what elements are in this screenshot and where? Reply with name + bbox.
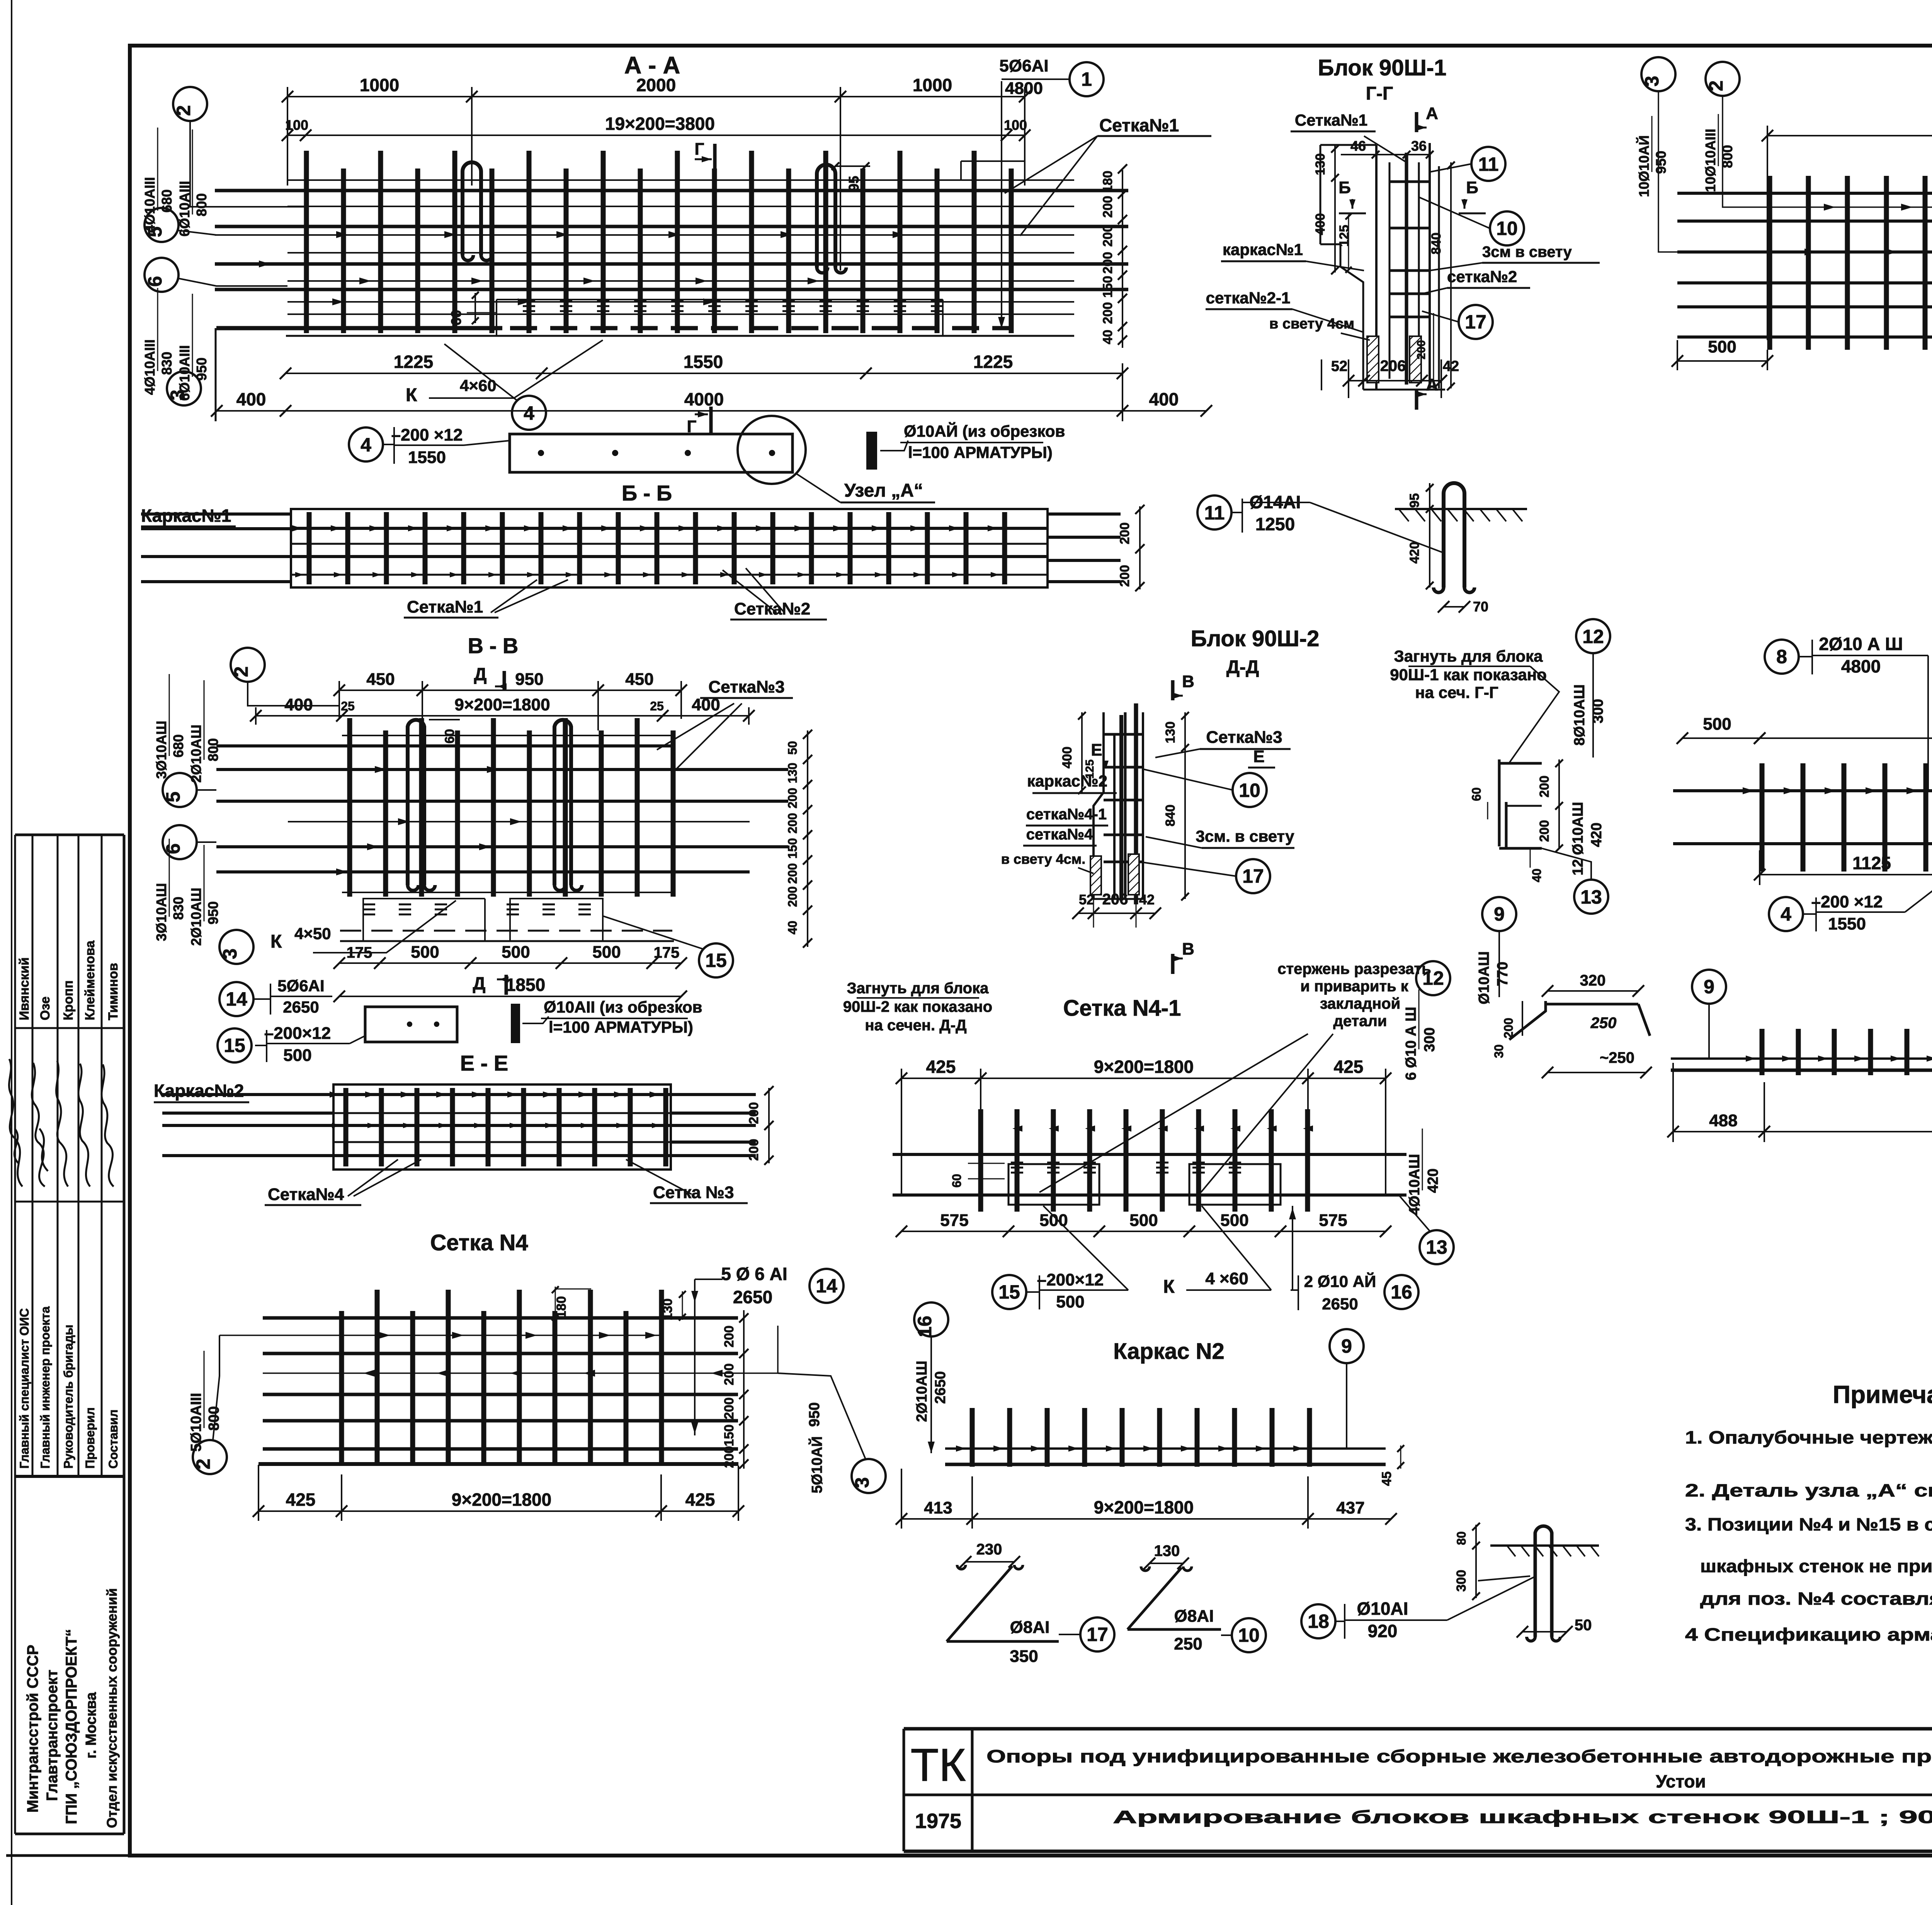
plate position circle 4 bbox=[349, 427, 383, 461]
svg-text:В: В bbox=[1182, 672, 1194, 691]
svg-text:95: 95 bbox=[1407, 493, 1422, 508]
svg-text:2Ø10АШ: 2Ø10АШ bbox=[914, 1361, 930, 1422]
svg-text:Блок 90Ш-1: Блок 90Ш-1 bbox=[1318, 55, 1447, 80]
detail 9 dims 320 30 200 250 ~250 bbox=[1542, 972, 1644, 997]
setka N4 circle 2 bbox=[192, 1440, 227, 1474]
V-V mesh arrows bbox=[336, 766, 522, 875]
setka N4-1 note circle 12 bbox=[1416, 961, 1450, 995]
detail 11 ground hatch line bbox=[1395, 508, 1527, 510]
A-A position circle 4 on plate leader bbox=[512, 396, 546, 430]
svg-text:42: 42 bbox=[1139, 892, 1155, 907]
svg-text:Сетка №3: Сетка №3 bbox=[653, 1183, 734, 1202]
svg-text:4800: 4800 bbox=[1841, 656, 1881, 676]
svg-text:Ø8АI: Ø8АI bbox=[1010, 1618, 1050, 1637]
G-G section mark A top bbox=[1417, 104, 1438, 132]
svg-text:Главный специалист ОИС: Главный специалист ОИС bbox=[17, 1308, 31, 1469]
svg-text:12: 12 bbox=[1582, 626, 1604, 647]
svg-text:и приварить к: и приварить к bbox=[1300, 978, 1409, 995]
svg-text:4 Спецификацию арматуры см: 4 Спецификацию арматуры см. лист 45 bbox=[1685, 1624, 1932, 1645]
svg-text:1850: 1850 bbox=[506, 975, 545, 995]
G-G horizontal struts bbox=[1389, 182, 1430, 317]
svg-text:5Ø6АI: 5Ø6АI bbox=[999, 56, 1048, 75]
svg-text:Проверил: Проверил bbox=[83, 1407, 97, 1469]
svg-text:125: 125 bbox=[1083, 759, 1096, 779]
svg-text:Каркас N2: Каркас N2 bbox=[1113, 1339, 1225, 1364]
svg-text:413: 413 bbox=[924, 1498, 952, 1517]
A-A left extension for 400 dim bbox=[215, 328, 217, 421]
svg-text:840: 840 bbox=[1163, 805, 1178, 827]
svg-text:Каркас№2: Каркас№2 bbox=[154, 1081, 244, 1101]
svg-text:4×50: 4×50 bbox=[294, 924, 331, 943]
svg-text:1125: 1125 bbox=[1852, 853, 1891, 873]
svg-text:12: 12 bbox=[1422, 967, 1444, 989]
V-V bottom dim 1850 bbox=[333, 975, 687, 1002]
svg-text:сетка№2: сетка№2 bbox=[1447, 267, 1517, 286]
svg-text:500: 500 bbox=[1708, 337, 1736, 356]
svg-text:сетка№4-1: сетка№4-1 bbox=[1026, 806, 1107, 823]
svg-text:l=100 АРМАТУРЫ): l=100 АРМАТУРЫ) bbox=[908, 443, 1053, 461]
svg-text:16: 16 bbox=[914, 1316, 935, 1337]
V-V circles left bbox=[230, 648, 265, 682]
sidebar signatures (rotated scribbles) bbox=[9, 1059, 114, 1187]
detail 12-13 dims 200 200 60 40 bbox=[1558, 759, 1560, 848]
G-G circle 17 bbox=[1459, 305, 1493, 339]
svg-text:Блок 90Ш-2: Блок 90Ш-2 bbox=[1191, 626, 1320, 651]
svg-text:200: 200 bbox=[722, 1364, 736, 1386]
sidebar role titles (rotated) bbox=[17, 1306, 120, 1469]
svg-text:Г: Г bbox=[695, 140, 704, 158]
setka N4 wires bbox=[259, 1318, 738, 1464]
A-A bottom dim 400/4000/400 bbox=[211, 389, 1212, 417]
svg-text:90Ш-1 как показано: 90Ш-1 как показано bbox=[1390, 666, 1547, 684]
svg-text:3: 3 bbox=[851, 1477, 873, 1488]
svg-text:200: 200 bbox=[1502, 1018, 1515, 1038]
svg-text:500: 500 bbox=[1220, 1211, 1248, 1230]
svg-text:420: 420 bbox=[1588, 822, 1605, 847]
svg-text:500: 500 bbox=[283, 1046, 311, 1065]
detail plate -200x12 pos 4 bbox=[510, 434, 793, 472]
svg-text:80: 80 bbox=[1454, 1531, 1468, 1545]
setka N4-1 wires bbox=[893, 1153, 1406, 1156]
svg-text:стержень разрезать: стержень разрезать bbox=[1277, 960, 1431, 977]
svg-text:15: 15 bbox=[224, 1035, 245, 1056]
detail 12 circle bbox=[1576, 619, 1610, 653]
A-A dim 60 step bbox=[474, 293, 476, 323]
svg-text:1250: 1250 bbox=[1255, 514, 1295, 534]
svg-text:400: 400 bbox=[284, 695, 313, 714]
svg-text:425: 425 bbox=[685, 1490, 715, 1510]
svg-text:Д: Д bbox=[474, 664, 487, 684]
svg-text:Ø10АI: Ø10АI bbox=[1357, 1599, 1408, 1619]
D-D bottom dims 52 206 42 bbox=[1072, 891, 1161, 919]
page frame: outer thin left rule bbox=[11, 0, 12, 1905]
svg-text:2Ø10АШ: 2Ø10АШ bbox=[188, 888, 204, 946]
svg-text:8: 8 bbox=[1776, 646, 1787, 667]
svg-text:ГПИ „СОЮЗДОРПРОЕКТ“: ГПИ „СОЮЗДОРПРОЕКТ“ bbox=[63, 1629, 80, 1824]
svg-text:40: 40 bbox=[1100, 330, 1115, 344]
svg-text:13: 13 bbox=[1580, 886, 1602, 908]
D-D circle 17 bbox=[1236, 859, 1270, 893]
svg-text:Сетка№3: Сетка№3 bbox=[708, 678, 784, 696]
svg-text:Руководитель бригады: Руководитель бригады bbox=[61, 1324, 75, 1469]
svg-text:500: 500 bbox=[411, 943, 439, 962]
B-B wires bbox=[141, 514, 1121, 582]
svg-text:4Ø10АΙΙΙ: 4Ø10АΙΙΙ bbox=[142, 339, 158, 395]
svg-text:950: 950 bbox=[806, 1402, 823, 1427]
G-G circle 11 bbox=[1471, 147, 1505, 181]
svg-text:Клейменова: Клейменова bbox=[83, 940, 97, 1020]
karkas N2 bottom dims 413/1800/437 bbox=[896, 1497, 1397, 1525]
svg-text:1: 1 bbox=[1081, 68, 1092, 90]
svg-text:420: 420 bbox=[1407, 542, 1422, 564]
svg-text:200: 200 bbox=[1117, 523, 1132, 545]
svg-text:300: 300 bbox=[1454, 1570, 1469, 1592]
svg-text:9×200=1800: 9×200=1800 bbox=[452, 1490, 551, 1510]
svg-text:60: 60 bbox=[950, 1174, 964, 1188]
svg-text:14: 14 bbox=[816, 1275, 837, 1297]
svg-text:на сечен. Д-Д: на сечен. Д-Д bbox=[865, 1017, 966, 1034]
svg-text:4: 4 bbox=[1781, 903, 1791, 925]
svg-text:500: 500 bbox=[592, 943, 621, 962]
detail 17 Z-bar bbox=[960, 1541, 1020, 1568]
svg-text:Опоры под унифицированные: Опоры под унифицированные сборные железо… bbox=[986, 1746, 1932, 1766]
svg-text:Тиминов: Тиминов bbox=[106, 963, 121, 1020]
setka N2-1 bottom dims 1125 1550 1125 bbox=[1754, 853, 1932, 880]
svg-text:575: 575 bbox=[1319, 1211, 1347, 1230]
svg-text:4: 4 bbox=[361, 434, 371, 456]
svg-text:3: 3 bbox=[1641, 76, 1663, 87]
detail 9 circle left bbox=[1482, 897, 1516, 931]
plate 15 rect bbox=[365, 1007, 457, 1042]
svg-text:шкафных стенок не привар: шкафных стенок не привариваются. Дополни… bbox=[1700, 1556, 1932, 1576]
svg-text:680: 680 bbox=[170, 734, 186, 758]
svg-text:Главный инженер проекта: Главный инженер проекта bbox=[38, 1306, 52, 1469]
svg-text:425: 425 bbox=[286, 1490, 316, 1510]
setka N2-1 wires bbox=[1673, 789, 1932, 792]
svg-text:3см в свету: 3см в свету bbox=[1482, 243, 1572, 260]
svg-text:16: 16 bbox=[1391, 1281, 1412, 1303]
svg-text:1550: 1550 bbox=[1828, 914, 1866, 933]
setka N2 bottom left dim 500 bbox=[1672, 337, 1773, 367]
svg-text:5Ø10АЙ: 5Ø10АЙ bbox=[808, 1436, 825, 1493]
svg-text:Озе: Озе bbox=[38, 996, 53, 1020]
svg-text:3. Позиции №4 и №15 в: 3. Позиции №4 и №15 в северном исполнени… bbox=[1685, 1514, 1932, 1534]
setka N4-1 circle 13 bbox=[1420, 1230, 1454, 1264]
svg-text:детали: детали bbox=[1333, 1013, 1387, 1030]
V-V hairpins bbox=[408, 720, 435, 890]
svg-text:400: 400 bbox=[236, 389, 266, 409]
svg-text:450: 450 bbox=[366, 670, 395, 689]
svg-text:25: 25 bbox=[341, 699, 355, 713]
setka N4-1 arrows bbox=[1012, 1125, 1313, 1132]
svg-text:3Ø10АШ: 3Ø10АШ bbox=[153, 883, 169, 941]
svg-text:200: 200 bbox=[786, 788, 799, 808]
svg-text:–200 ×12: –200 ×12 bbox=[1811, 892, 1883, 911]
svg-text:17: 17 bbox=[1465, 311, 1486, 333]
sidebar stamp table bbox=[15, 835, 124, 1834]
setka N2 arrows on wires bbox=[1804, 204, 1932, 255]
svg-text:36: 36 bbox=[1411, 138, 1427, 154]
svg-text:3Ø10АШ: 3Ø10АШ bbox=[153, 721, 169, 779]
svg-text:9×200=1800: 9×200=1800 bbox=[1094, 1497, 1194, 1517]
svg-text:Отдел искусственных сооружен: Отдел искусственных сооружений bbox=[104, 1588, 120, 1828]
svg-text:300: 300 bbox=[1422, 1027, 1438, 1052]
svg-text:206: 206 bbox=[1380, 358, 1406, 375]
svg-text:l=100 АРМАТУРЫ): l=100 АРМАТУРЫ) bbox=[549, 1018, 693, 1036]
setka N4-1 bottom dims 575/500/500/500/575 bbox=[896, 1211, 1391, 1237]
svg-text:Кропп: Кропп bbox=[61, 981, 76, 1020]
karkas N1 circle 9 bbox=[1692, 970, 1726, 1004]
svg-text:4: 4 bbox=[524, 402, 534, 424]
svg-text:2: 2 bbox=[1705, 80, 1727, 91]
karkas N1 bars bbox=[1746, 1029, 1932, 1075]
svg-text:К: К bbox=[1163, 1277, 1175, 1297]
svg-text:200: 200 bbox=[786, 886, 799, 907]
svg-text:в свету 4см: в свету 4см bbox=[1269, 316, 1354, 332]
A-A dim 95 at hairpin bbox=[835, 165, 870, 167]
svg-text:70: 70 bbox=[1473, 599, 1488, 615]
pin detail d10AII lower bbox=[512, 1005, 519, 1042]
svg-text:сетка№2-1: сетка№2-1 bbox=[1206, 289, 1291, 307]
svg-text:1. Опалубочные чертежи бло: 1. Опалубочные чертежи блоков см. лист 4… bbox=[1685, 1427, 1932, 1447]
svg-text:60: 60 bbox=[442, 729, 457, 744]
page bottom rule to left edge bbox=[6, 1854, 130, 1857]
svg-text:60: 60 bbox=[448, 310, 464, 325]
svg-text:~250: ~250 bbox=[1600, 1049, 1634, 1066]
V-V circle 14 + label 5d6AI 2650 bbox=[219, 982, 253, 1016]
svg-text:Сетка N4: Сетка N4 bbox=[430, 1230, 528, 1255]
svg-text:в свету 4см.: в свету 4см. bbox=[1001, 851, 1086, 867]
A-A mesh arrows bbox=[259, 231, 904, 305]
setka N4-1 weld hashes + plates bbox=[1011, 1163, 1241, 1173]
V-V bottom plates outline bbox=[363, 899, 485, 941]
svg-text:Армирование блоков шкаф: Армирование блоков шкафных стенок 90Ш-1 … bbox=[1113, 1807, 1932, 1827]
svg-text:950: 950 bbox=[1653, 151, 1669, 174]
title block table bbox=[904, 1729, 1932, 1851]
svg-text:17: 17 bbox=[1242, 865, 1264, 887]
setka N4 right chain bbox=[743, 1310, 745, 1469]
svg-text:200: 200 bbox=[1100, 302, 1115, 324]
V-V right rotated dims bbox=[807, 730, 808, 947]
svg-text:130: 130 bbox=[660, 1299, 675, 1321]
svg-text:11: 11 bbox=[1204, 502, 1225, 524]
V-V circle 15 + leader bbox=[699, 943, 733, 977]
svg-text:5 Ø 6 АI: 5 Ø 6 АI bbox=[721, 1264, 787, 1284]
svg-text:320: 320 bbox=[1580, 972, 1606, 989]
svg-text:200: 200 bbox=[722, 1326, 736, 1348]
svg-text:–200×12: –200×12 bbox=[264, 1024, 331, 1043]
svg-text:В: В bbox=[1182, 940, 1194, 958]
karkas N2 circle 9 bbox=[1330, 1329, 1364, 1363]
svg-text:Каркас№1: Каркас№1 bbox=[141, 506, 231, 526]
A-A position circle 3 bbox=[167, 371, 201, 405]
A-A top-right outline step bbox=[960, 161, 962, 180]
svg-text:1225: 1225 bbox=[973, 352, 1013, 372]
svg-text:Сетка№1: Сетка№1 bbox=[1099, 115, 1179, 135]
svg-text:2000: 2000 bbox=[636, 75, 676, 95]
svg-text:для поз. №4 составляет: для поз. №4 составляет 3.6 кг для поз. №… bbox=[1700, 1588, 1932, 1609]
setka N2-1 circle 8 callout bbox=[1765, 640, 1799, 674]
svg-text:52: 52 bbox=[1331, 358, 1347, 375]
svg-text:150: 150 bbox=[786, 838, 799, 858]
V-V mesh wires bbox=[216, 735, 788, 892]
setka N2-1 plate callout 4 bbox=[1769, 897, 1803, 931]
svg-text:закладной: закладной bbox=[1320, 995, 1400, 1012]
setka N2-1 dim 500 left bbox=[1677, 715, 1765, 744]
G-G circle 10 bbox=[1490, 211, 1524, 245]
svg-text:2Ø10 А Ш: 2Ø10 А Ш bbox=[1819, 634, 1903, 654]
detail 9 bent bar bbox=[1509, 1011, 1510, 1036]
svg-text:800: 800 bbox=[1719, 145, 1735, 168]
detail 18 hairpin bbox=[1535, 1526, 1552, 1637]
svg-text:130: 130 bbox=[1163, 722, 1178, 744]
svg-text:950: 950 bbox=[515, 670, 543, 689]
A-A top dimension 1000/2000/1000 bbox=[282, 75, 1031, 102]
svg-text:50: 50 bbox=[786, 741, 799, 755]
svg-text:Ø10АЙ (из обрезков: Ø10АЙ (из обрезков bbox=[904, 422, 1065, 440]
D-D hatched zones bbox=[1090, 856, 1101, 895]
svg-text:Загнуть для блока: Загнуть для блока bbox=[1394, 647, 1543, 665]
svg-text:200: 200 bbox=[1537, 776, 1552, 798]
svg-text:840: 840 bbox=[1429, 233, 1444, 255]
svg-text:9: 9 bbox=[1341, 1335, 1352, 1357]
svg-text:каркас№1: каркас№1 bbox=[1223, 240, 1303, 259]
svg-text:Главтранспроект: Главтранспроект bbox=[44, 1670, 61, 1801]
svg-text:2 Ø10 АЙ: 2 Ø10 АЙ bbox=[1304, 1272, 1376, 1290]
setka N2 wires bbox=[1677, 193, 1932, 337]
svg-text:Устои: Устои bbox=[1656, 1771, 1706, 1791]
svg-text:46: 46 bbox=[1350, 138, 1366, 154]
setka N4 vertical bars bbox=[342, 1290, 662, 1463]
svg-text:2650: 2650 bbox=[1322, 1295, 1358, 1313]
svg-text:19×200=3800: 19×200=3800 bbox=[605, 114, 715, 134]
svg-text:400: 400 bbox=[1313, 213, 1328, 235]
svg-text:130: 130 bbox=[786, 763, 799, 783]
A-A right chain dims rotated bbox=[1122, 170, 1123, 348]
svg-text:130: 130 bbox=[1154, 1542, 1180, 1559]
svg-text:А: А bbox=[1426, 104, 1438, 123]
svg-text:Ø8АI: Ø8АI bbox=[1174, 1607, 1214, 1626]
svg-text:200: 200 bbox=[1100, 196, 1115, 218]
setka N2-1 arrows bbox=[1743, 787, 1932, 843]
setka N4-1 plate callout 15 bbox=[992, 1275, 1026, 1309]
setka N2-1 vertical bars bbox=[1762, 763, 1932, 872]
svg-text:488: 488 bbox=[1709, 1111, 1737, 1130]
svg-text:11: 11 bbox=[1478, 153, 1499, 175]
svg-text:12 Ø10АШ: 12 Ø10АШ bbox=[1570, 802, 1586, 875]
svg-text:В - В: В - В bbox=[468, 633, 519, 658]
E-E right rotated dims 200 200 bbox=[768, 1088, 770, 1163]
svg-text:230: 230 bbox=[976, 1541, 1002, 1558]
svg-text:800: 800 bbox=[205, 738, 221, 761]
svg-text:Е: Е bbox=[1091, 741, 1102, 759]
svg-text:2: 2 bbox=[230, 666, 252, 677]
svg-text:Ø10АШ: Ø10АШ bbox=[1476, 951, 1492, 1004]
svg-text:–200×12: –200×12 bbox=[1037, 1270, 1104, 1289]
svg-text:Загнуть для блока: Загнуть для блока bbox=[847, 980, 989, 997]
svg-text:2650: 2650 bbox=[283, 998, 319, 1016]
svg-text:575: 575 bbox=[940, 1211, 968, 1230]
svg-text:–200 ×12: –200 ×12 bbox=[391, 426, 463, 444]
setka N4 circle 3 bbox=[851, 1459, 886, 1493]
A-A position circle 2 bbox=[173, 87, 207, 121]
A-A anchor plate step outline bbox=[497, 299, 943, 300]
svg-text:2Ø10АШ: 2Ø10АШ bbox=[188, 725, 204, 783]
G-G left dim chain 130 400 125 bbox=[1334, 145, 1336, 272]
svg-text:90Ш-2 как показано: 90Ш-2 как показано bbox=[843, 998, 992, 1015]
svg-text:2650: 2650 bbox=[932, 1371, 949, 1404]
svg-text:450: 450 bbox=[625, 670, 653, 689]
svg-text:6: 6 bbox=[162, 843, 184, 854]
D-D dim 130 840 bbox=[1184, 712, 1186, 899]
svg-text:9: 9 bbox=[1494, 903, 1505, 925]
svg-text:200: 200 bbox=[722, 1446, 736, 1468]
karkas N2 circle 16 callout rotated bbox=[914, 1302, 948, 1337]
svg-text:45: 45 bbox=[1379, 1471, 1394, 1486]
setka N2 dim 19x200=3800 bbox=[1762, 114, 1932, 141]
svg-text:500: 500 bbox=[1056, 1292, 1084, 1311]
svg-text:50: 50 bbox=[1575, 1617, 1592, 1634]
svg-text:Ø10АΙΙ (из обрезков: Ø10АΙΙ (из обрезков bbox=[544, 998, 702, 1016]
svg-text:Б - Б: Б - Б bbox=[622, 481, 672, 505]
V-V dim 400/25/9x200=1800/25/400 bbox=[250, 695, 755, 722]
svg-text:сетка№4: сетка№4 bbox=[1026, 826, 1093, 843]
V-V weld hashes bbox=[363, 904, 591, 914]
A-A bottom dim 1225/1550/1225 bbox=[280, 352, 1128, 379]
svg-text:6: 6 bbox=[144, 276, 166, 287]
E-E vertical bars bbox=[330, 1088, 666, 1166]
A-A mesh horizontal wires bbox=[215, 180, 1128, 314]
svg-text:400: 400 bbox=[1149, 389, 1179, 409]
svg-text:425: 425 bbox=[926, 1057, 956, 1077]
svg-text:10: 10 bbox=[1496, 218, 1518, 239]
karkas N2 rails bbox=[945, 1447, 1386, 1450]
svg-text:52: 52 bbox=[1079, 892, 1094, 907]
svg-text:200: 200 bbox=[1537, 820, 1552, 842]
svg-text:200: 200 bbox=[1117, 565, 1132, 587]
svg-text:830: 830 bbox=[170, 897, 186, 920]
B-B right rotated dims 200 200 bbox=[1139, 506, 1141, 589]
detail 11 dims 95 420 70 bbox=[1429, 483, 1430, 587]
V-V dim 60 hairpin bbox=[429, 719, 460, 720]
svg-text:1000: 1000 bbox=[360, 75, 399, 95]
svg-text:18: 18 bbox=[1308, 1610, 1329, 1632]
svg-text:9: 9 bbox=[1704, 976, 1714, 998]
svg-text:175: 175 bbox=[654, 944, 680, 961]
svg-text:770: 770 bbox=[1495, 962, 1511, 986]
svg-text:100: 100 bbox=[1004, 117, 1027, 133]
svg-text:6 Ø10 А Ш: 6 Ø10 А Ш bbox=[1403, 1007, 1419, 1080]
svg-text:г. Москва: г. Москва bbox=[83, 1692, 99, 1759]
svg-text:200: 200 bbox=[786, 863, 799, 884]
svg-text:3см. в свету: 3см. в свету bbox=[1196, 827, 1294, 845]
svg-text:200: 200 bbox=[747, 1139, 761, 1161]
svg-text:на сеч. Г-Г: на сеч. Г-Г bbox=[1415, 683, 1498, 701]
A-A position circle 5 bbox=[144, 208, 179, 242]
svg-text:1000: 1000 bbox=[913, 75, 952, 95]
detail uzel A circle bbox=[738, 416, 806, 484]
plate position 15 circle bbox=[218, 1028, 252, 1062]
svg-text:10: 10 bbox=[1238, 1624, 1260, 1646]
svg-text:Е: Е bbox=[1253, 747, 1264, 766]
svg-text:13: 13 bbox=[1426, 1236, 1447, 1258]
pin detail d10AII leader (top) bbox=[867, 433, 876, 468]
setka N4-1 vertical bars bbox=[981, 1109, 1308, 1212]
A-A bottom thin boundary bbox=[286, 335, 1074, 337]
sidebar names column (rotated) bbox=[17, 940, 121, 1020]
A-A bottom chord thick wire bbox=[216, 326, 502, 330]
detail 18 dims 80 300 50 bbox=[1475, 1525, 1477, 1598]
